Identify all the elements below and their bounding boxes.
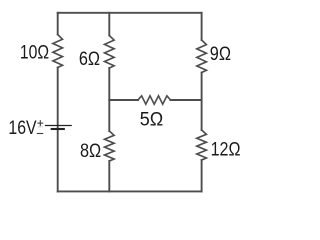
svg-text:8Ω: 8Ω — [80, 140, 101, 162]
battery minus sign — [37, 133, 42, 135]
svg-text:12Ω: 12Ω — [211, 139, 241, 161]
label 10Ω — [20, 41, 49, 63]
wire middle branch (R 6Ω to node B) — [108, 68, 110, 131]
label 9Ω — [210, 43, 231, 65]
battery plus sign — [38, 121, 43, 126]
wire bottom — [58, 190, 202, 192]
label 16V — [8, 117, 36, 139]
resistor 5Ω — [138, 96, 171, 104]
resistor 12Ω — [197, 130, 207, 160]
svg-text:9Ω: 9Ω — [210, 43, 231, 65]
svg-text:10Ω: 10Ω — [20, 41, 49, 63]
battery 16V — [46, 126, 72, 130]
wire middle branch top — [108, 13, 110, 36]
svg-text:6Ω: 6Ω — [79, 48, 100, 70]
label 5Ω — [140, 108, 164, 130]
wire middle branch bottom — [108, 161, 110, 191]
wire left top (top-left corner to R 10Ω) — [57, 13, 59, 35]
svg-text:16V: 16V — [8, 117, 36, 139]
resistor 6Ω — [105, 36, 115, 69]
label 12Ω — [211, 139, 241, 161]
label 8Ω — [80, 140, 101, 162]
wire right top — [201, 13, 203, 40]
wire left middle (R 10Ω through battery to bottom-left corner) — [57, 68, 59, 192]
wire right bottom — [201, 160, 203, 191]
resistor 9Ω — [197, 40, 207, 73]
wire R 5Ω to node C — [171, 99, 202, 101]
label 6Ω — [79, 48, 100, 70]
wire right middle (R 9Ω to node C) — [201, 73, 203, 131]
resistor 8Ω — [105, 131, 115, 161]
wire node B to R 5Ω — [109, 99, 138, 101]
battery plus underline (faint) — [38, 126, 42, 128]
wire top — [58, 12, 202, 14]
resistor 10Ω — [53, 35, 63, 68]
svg-text:5Ω: 5Ω — [140, 108, 164, 130]
